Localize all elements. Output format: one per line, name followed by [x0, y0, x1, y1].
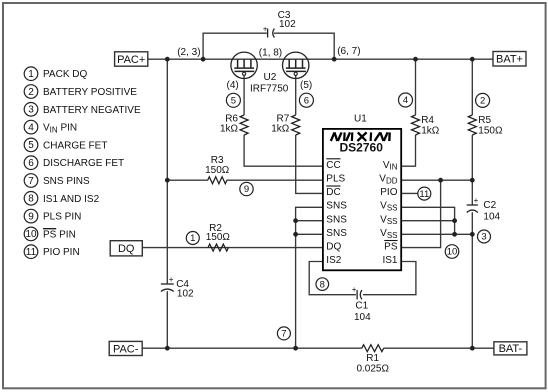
- svg-text:150Ω: 150Ω: [205, 165, 230, 176]
- svg-text:104: 104: [354, 312, 371, 323]
- wire VSS1 elbow: [401, 207, 454, 234]
- svg-text:11: 11: [419, 189, 429, 200]
- node callout 4: [399, 93, 413, 107]
- svg-text:7: 7: [281, 329, 286, 340]
- svg-text:PLS: PLS: [326, 174, 345, 185]
- svg-text:DQ: DQ: [118, 243, 135, 255]
- junction VSS2 / VSS3: [452, 232, 457, 237]
- legend item 8: [24, 192, 99, 206]
- resistor R7 1k: [292, 115, 300, 135]
- node callout 9: [240, 182, 253, 195]
- svg-text:150Ω: 150Ω: [206, 232, 231, 243]
- capacitor C3: [268, 29, 275, 38]
- wire top rail PAC+ to BAT+: [148, 58, 493, 60]
- svg-text:IS2: IS2: [326, 255, 341, 266]
- svg-text:DISCHARGE FET: DISCHARGE FET: [43, 158, 124, 169]
- svg-text:1: 1: [190, 233, 195, 244]
- wire C1 to IS1: [363, 262, 416, 295]
- svg-text:SNS PINS: SNS PINS: [43, 176, 90, 187]
- svg-text:2: 2: [28, 87, 34, 98]
- svg-text:C2: C2: [483, 200, 496, 211]
- node callout 6: [299, 93, 313, 107]
- svg-text:1: 1: [28, 69, 34, 80]
- svg-text:PIO: PIO: [380, 187, 397, 198]
- junction VSS3 / C2 branch: [470, 232, 475, 237]
- resistor R6 1k: [240, 115, 248, 135]
- svg-text:104: 104: [483, 212, 500, 223]
- svg-text:+: +: [352, 285, 357, 294]
- node callout 10: [445, 245, 459, 259]
- wire VDD to PS vertical: [401, 180, 440, 247]
- svg-text:PS PIN: PS PIN: [43, 229, 76, 240]
- svg-text:(5): (5): [300, 80, 312, 91]
- wire R6 gate lead: [243, 75, 245, 115]
- wire R4 branch to VIN: [415, 59, 417, 115]
- junction SNS bundle / SNS2: [293, 218, 298, 223]
- svg-text:BAT-: BAT-: [499, 343, 523, 355]
- terminal box BAT+: [493, 52, 526, 67]
- junction bottom rail / C2 branch: [470, 346, 475, 351]
- svg-text:+: +: [169, 275, 174, 284]
- legend item 1: [24, 67, 87, 81]
- svg-text:VIN PIN: VIN PIN: [43, 123, 77, 135]
- transistor U2 right FET (discharge): [283, 52, 309, 78]
- wire bottom rail PAC- to BAT-: [142, 347, 362, 349]
- svg-text:(6, 7): (6, 7): [337, 46, 360, 57]
- wire C2 bottom to BAT- rail: [471, 212, 473, 348]
- junction bottom rail / SNS bundle: [293, 346, 298, 351]
- svg-text:1kΩ: 1kΩ: [220, 124, 239, 135]
- junction SNS bundle / SNS3: [293, 232, 298, 237]
- svg-text:4: 4: [28, 122, 34, 133]
- svg-text:(1, 8): (1, 8): [259, 47, 282, 58]
- resistor R2 150: [208, 244, 228, 251]
- svg-text:BATTERY NEGATIVE: BATTERY NEGATIVE: [43, 105, 141, 116]
- svg-text:CC: CC: [326, 160, 340, 171]
- svg-text:PAC-: PAC-: [113, 343, 139, 355]
- svg-text:6: 6: [304, 95, 309, 106]
- node callout 11: [418, 187, 431, 200]
- wire VDD row: [401, 179, 472, 181]
- legend item 2: [24, 85, 137, 99]
- svg-text:0.025Ω: 0.025Ω: [356, 364, 389, 375]
- junction rail / C3 right: [332, 57, 337, 62]
- svg-text:2: 2: [480, 96, 485, 107]
- legend item 9: [24, 209, 81, 223]
- svg-text:5: 5: [231, 96, 236, 107]
- terminal box DQ: [110, 241, 142, 256]
- svg-text:IS1: IS1: [382, 255, 397, 266]
- svg-text:7: 7: [28, 176, 34, 187]
- wire R5 branch: [471, 59, 473, 115]
- wire PIO stub: [401, 192, 418, 194]
- node callout 5: [226, 93, 240, 107]
- junction bottom rail / C4 branch: [165, 346, 170, 351]
- node callout 3: [478, 230, 491, 243]
- wire VSS3 row to C2: [401, 233, 472, 235]
- terminal box PAC+: [115, 52, 148, 66]
- wire SNS bundle: [296, 207, 323, 348]
- capacitor C4: [161, 284, 174, 292]
- svg-text:5: 5: [28, 140, 34, 151]
- svg-text:1kΩ: 1kΩ: [421, 125, 440, 136]
- node callout 7: [277, 327, 290, 340]
- svg-text:DC: DC: [326, 187, 340, 198]
- legend item 10: [24, 227, 76, 241]
- svg-text:9: 9: [244, 184, 249, 195]
- junction rail / C3 left: [201, 57, 206, 62]
- svg-text:8: 8: [28, 194, 34, 205]
- svg-text:150Ω: 150Ω: [478, 125, 503, 136]
- resistor R1 0.025: [362, 345, 384, 352]
- MAXIM logo: [331, 132, 390, 141]
- svg-text:BAT+: BAT+: [496, 54, 523, 66]
- svg-text:IRF7750: IRF7750: [250, 83, 289, 94]
- svg-text:SNS: SNS: [326, 228, 347, 239]
- svg-text:SNS: SNS: [326, 214, 347, 225]
- node callout 8: [316, 278, 329, 291]
- node callout 1: [186, 232, 199, 245]
- svg-text:8: 8: [320, 279, 325, 290]
- svg-text:3: 3: [481, 232, 486, 243]
- svg-text:4: 4: [403, 95, 408, 106]
- svg-text:+: +: [474, 196, 479, 205]
- wire C3 branch: [203, 33, 267, 59]
- svg-text:PLS PIN: PLS PIN: [43, 212, 81, 223]
- junction VDD / PS branch: [438, 178, 443, 183]
- svg-text:102: 102: [279, 19, 296, 30]
- legend item 3: [24, 103, 141, 117]
- wire C4 bottom to PAC- rail: [166, 291, 168, 348]
- svg-text:102: 102: [177, 289, 194, 300]
- svg-text:BATTERY POSITIVE: BATTERY POSITIVE: [43, 87, 137, 98]
- svg-text:6: 6: [28, 158, 34, 169]
- wire PAC+ vertical down to C4: [166, 59, 168, 283]
- resistor R4 1k: [412, 115, 420, 135]
- resistor R3 150: [208, 177, 227, 184]
- capacitor C1: [357, 290, 362, 299]
- resistor R5 150: [468, 115, 476, 135]
- wire VSS2 stub: [401, 220, 454, 222]
- legend item 6: [24, 156, 124, 170]
- legend item 7: [24, 174, 90, 188]
- svg-text:U2: U2: [264, 72, 277, 83]
- wire R6 bottom to CC pin: [244, 135, 323, 166]
- svg-text:(2, 3): (2, 3): [177, 47, 200, 58]
- junction rail / R4 branch: [413, 57, 418, 62]
- junction PAC+ rail / C4 branch: [165, 57, 170, 62]
- svg-text:11: 11: [26, 247, 37, 258]
- wire IS2 to C1: [309, 262, 356, 295]
- wire R3 to PLS: [167, 179, 207, 181]
- svg-text:3: 3: [28, 105, 34, 116]
- svg-text:10: 10: [25, 229, 37, 240]
- wire DQ row: [142, 247, 323, 249]
- terminal box PAC-: [109, 341, 142, 355]
- node callout 2: [476, 93, 490, 107]
- legend item 5: [24, 138, 107, 152]
- op-amp U1 DS2760 IC body: [323, 129, 401, 270]
- wire R7 gate lead: [295, 75, 297, 115]
- junction VDD / R5-C2: [470, 178, 475, 183]
- wire R7 bottom to DC pin: [296, 135, 323, 193]
- junction VSS1 / VSS2: [452, 218, 457, 223]
- svg-text:PIO PIN: PIO PIN: [43, 247, 80, 258]
- svg-text:R1: R1: [366, 353, 379, 364]
- svg-text:DQ: DQ: [326, 242, 341, 253]
- transistor U2 left FET (charge): [231, 52, 257, 78]
- svg-text:9: 9: [28, 211, 34, 222]
- svg-text:10: 10: [447, 247, 458, 258]
- capacitor C2: [467, 205, 478, 213]
- junction C4 branch / R3: [165, 178, 170, 183]
- legend item 11: [24, 245, 79, 259]
- svg-text:1kΩ: 1kΩ: [271, 124, 290, 135]
- svg-text:SNS: SNS: [326, 201, 347, 212]
- svg-text:PACK DQ: PACK DQ: [43, 69, 87, 80]
- svg-text:CHARGE FET: CHARGE FET: [43, 140, 107, 151]
- legend item 4: [24, 120, 77, 134]
- svg-text:U1: U1: [354, 114, 367, 125]
- svg-text:DS2760: DS2760: [340, 141, 384, 155]
- svg-text:PS: PS: [384, 242, 398, 253]
- junction rail / R5 branch: [470, 57, 475, 62]
- terminal box BAT-: [494, 342, 527, 355]
- svg-text:(4): (4): [227, 80, 239, 91]
- svg-text:PAC+: PAC+: [117, 54, 145, 66]
- svg-text:IS1 AND IS2: IS1 AND IS2: [43, 194, 100, 205]
- svg-text:C1: C1: [355, 301, 368, 312]
- svg-text:+: +: [263, 24, 268, 33]
